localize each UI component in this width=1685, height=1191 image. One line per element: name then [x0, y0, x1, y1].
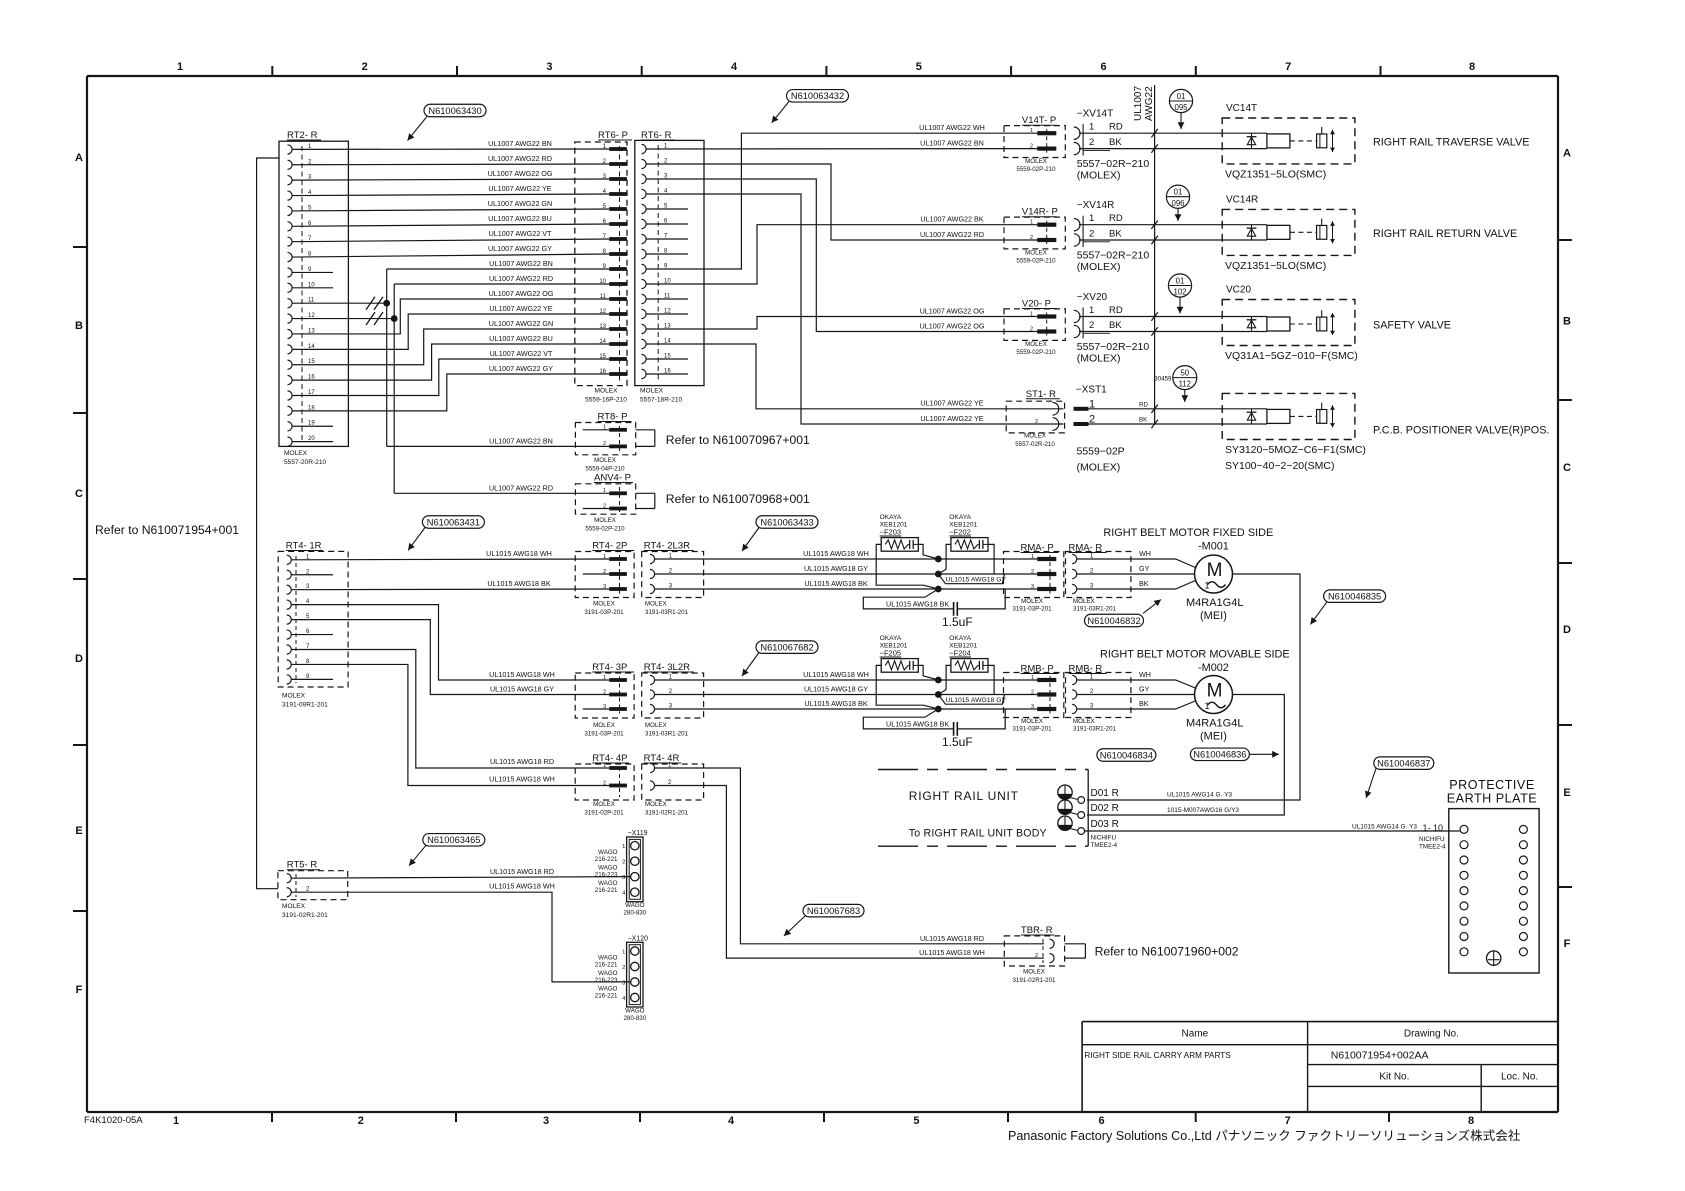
wire RT2-R.17 to RT6-P.15 (UL1007 AWG22 VT) — [292, 349, 609, 395]
dash-dot box RIGHT RAIL UNIT (open left) — [878, 770, 1088, 847]
svg-text:UL1007 AWG22 YE: UL1007 AWG22 YE — [920, 414, 983, 423]
svg-text:280-830: 280-830 — [623, 910, 646, 917]
svg-text:UL1015 AWG18 WH: UL1015 AWG18 WH — [803, 549, 869, 558]
connector V20- P (MOLEX 5559-02P-210) — [1004, 299, 1065, 357]
svg-text:VC14T: VC14T — [1226, 103, 1257, 114]
svg-text:D03 R: D03 R — [1091, 819, 1119, 830]
heading RIGHT BELT MOTOR MOVABLE SIDE -M002 — [1100, 649, 1290, 675]
svg-text:3191-03R1-201: 3191-03R1-201 — [645, 731, 689, 738]
connector V14R- P (MOLEX 5559-02P-210) — [1004, 207, 1065, 265]
solenoid valve P.C.B. POSITIONER VALVE(R)POS. — [1222, 393, 1366, 472]
svg-text:BK: BK — [1109, 137, 1122, 148]
svg-text:RIGHT RAIL TRAVERSE VALVE: RIGHT RAIL TRAVERSE VALVE — [1373, 136, 1529, 148]
svg-text:096: 096 — [1171, 199, 1184, 208]
wire RMB- R.1 to motor M002 (WH) — [1077, 670, 1197, 689]
filter F204 (OKAYA XEB1201) — [938, 635, 994, 695]
wire RT6-R.3 to V20-P.2 (UL1007 AWG22 OG) — [646, 179, 1037, 332]
svg-text:1: 1 — [1031, 554, 1034, 560]
svg-text:3: 3 — [1031, 704, 1034, 710]
svg-text:MOLEX: MOLEX — [1021, 598, 1043, 605]
svg-text:UL1007 AWG22 RD: UL1007 AWG22 RD — [489, 274, 553, 283]
wire RT2-R.3 to RT6-P.3 (UL1007 AWG22 OG) — [292, 169, 609, 180]
svg-text:MOLEX: MOLEX — [1025, 158, 1047, 165]
svg-text:216-223: 216-223 — [595, 977, 618, 984]
connector RT4-2L3R (MOLEX 3191-03R1-201) — [642, 541, 704, 617]
svg-text:2: 2 — [603, 689, 606, 695]
svg-text:UL1007 AWG22 YE: UL1007 AWG22 YE — [920, 399, 983, 408]
wire motor M002 to D02 R bus — [1087, 695, 1284, 816]
svg-text:UL1015 AWG18 GY: UL1015 AWG18 GY — [804, 564, 868, 573]
svg-text:BK: BK — [1109, 229, 1122, 240]
wire label D02 (1015-M007AWG16 G/Y3) — [1167, 807, 1239, 814]
svg-text:216-221: 216-221 — [595, 887, 618, 894]
svg-text:(MOLEX): (MOLEX) — [1077, 353, 1121, 365]
svg-text:UL1007 AWG22 GN: UL1007 AWG22 GN — [488, 199, 552, 208]
heading RIGHT BELT MOTOR FIXED SIDE -M001 — [1103, 527, 1273, 553]
svg-text:1: 1 — [603, 554, 606, 560]
wire stub RT2-R.19 — [292, 425, 333, 427]
svg-text:Refer to N610070968+001: Refer to N610070968+001 — [666, 492, 810, 506]
svg-text:3: 3 — [603, 584, 606, 590]
svg-text:WAGO: WAGO — [625, 1007, 645, 1014]
connector RMB- P (MOLEX 3191-03P-201) — [1004, 664, 1064, 733]
wire RT6-R.1 to V14T-P.2 (UL1007 AWG22 BN) — [646, 138, 1037, 149]
svg-text:2: 2 — [1035, 419, 1038, 425]
svg-text:(MOLEX): (MOLEX) — [1077, 462, 1121, 474]
wire RT2-R.2 to RT6-P.2 (UL1007 AWG22 RD) — [292, 154, 609, 165]
svg-text:RT2- R: RT2- R — [287, 130, 318, 141]
svg-text:5557−02R−210: 5557−02R−210 — [1077, 250, 1150, 262]
svg-text:3: 3 — [543, 1115, 549, 1127]
svg-text:Kit No.: Kit No. — [1379, 1072, 1409, 1083]
wire RT2-R.7 to RT6-P.7 (UL1007 AWG22 VT) — [292, 229, 609, 242]
connector RMB- R (MOLEX 3191-03R1-201) — [1066, 664, 1131, 733]
balloon N610063465 — [409, 834, 485, 866]
svg-text:01: 01 — [1177, 92, 1186, 101]
svg-text:Drawing No.: Drawing No. — [1404, 1029, 1459, 1040]
svg-text:UL1007 AWG22 WH: UL1007 AWG22 WH — [919, 123, 985, 132]
svg-text:MOLEX: MOLEX — [645, 601, 667, 608]
plug header XV20 (5557-02R-210 MOLEX) — [1074, 292, 1222, 365]
svg-text:3191-03P-201: 3191-03P-201 — [1012, 606, 1052, 613]
svg-text:−XV14R: −XV14R — [1077, 200, 1115, 211]
svg-text:UL1007 AWG22 RD: UL1007 AWG22 RD — [920, 230, 984, 239]
svg-text:MOLEX: MOLEX — [1024, 433, 1046, 440]
svg-text:5559-02P-210: 5559-02P-210 — [585, 526, 625, 533]
svg-text:(MOLEX): (MOLEX) — [1077, 261, 1121, 273]
balloon ref 50/112 (30459) — [1154, 366, 1197, 402]
connector RT4-3L2R (MOLEX 3191-03R1-201) — [642, 662, 704, 738]
svg-text:RIGHT SIDE RAIL CARRY ARM PART: RIGHT SIDE RAIL CARRY ARM PARTS — [1084, 1051, 1231, 1060]
svg-text:D01 R: D01 R — [1091, 788, 1119, 799]
svg-text:TMEE2-4: TMEE2-4 — [1419, 844, 1446, 851]
wire RT4-1R.7 to RT4-4P.1 (UL1015 AWG18 RD) — [291, 650, 609, 769]
junction dots M002 WH/GY/BK — [935, 677, 942, 713]
terminal strip -X119 (WAGO) — [595, 830, 648, 917]
valve name: SAFETY VALVE — [1373, 320, 1451, 332]
wire RT2-R.15 to RT6-P.13 (UL1007 AWG22 GN) — [292, 319, 609, 365]
svg-text:UL1007 AWG22 BN: UL1007 AWG22 BN — [920, 138, 984, 147]
svg-text:WAGO: WAGO — [598, 985, 618, 992]
svg-text:N610046836: N610046836 — [1193, 750, 1246, 760]
svg-text:VQ31A1−5GZ−010−F(SMC): VQ31A1−5GZ−010−F(SMC) — [1225, 350, 1358, 362]
svg-text:1.5uF: 1.5uF — [942, 615, 973, 629]
svg-text:E: E — [1563, 787, 1570, 799]
svg-text:MOLEX: MOLEX — [593, 801, 615, 808]
capacitor 1.5uF (M001) — [863, 589, 1005, 629]
title block — [1082, 1022, 1558, 1112]
svg-text:UL1007 AWG22 YE: UL1007 AWG22 YE — [488, 184, 551, 193]
svg-text:UL1015 AWG18 RD: UL1015 AWG18 RD — [490, 757, 554, 766]
plug header XV14R (5557-02R-210 MOLEX) — [1074, 200, 1222, 273]
connector RMA- P (MOLEX 3191-03P-201) — [1004, 543, 1064, 613]
svg-text:WAGO: WAGO — [625, 902, 645, 909]
svg-text:1: 1 — [1205, 581, 1210, 591]
svg-text:5559-04P-210: 5559-04P-210 — [585, 466, 625, 473]
svg-text:UL1007 AWG22 OG: UL1007 AWG22 OG — [489, 289, 554, 298]
valve name: RIGHT RAIL RETURN VALVE — [1373, 228, 1517, 240]
filter F202 (OKAYA XEB1201) — [938, 514, 994, 574]
svg-text:3191-03P-201: 3191-03P-201 — [584, 731, 624, 738]
svg-text:C: C — [1563, 462, 1571, 474]
svg-text:UL1007 AWG22 BU: UL1007 AWG22 BU — [488, 214, 552, 223]
svg-text:NICHIFU: NICHIFU — [1419, 836, 1445, 843]
svg-text:V14T- P: V14T- P — [1022, 115, 1056, 126]
earth terminal D03 R — [1058, 816, 1119, 834]
svg-text:UL1015 AWG18 RD: UL1015 AWG18 RD — [920, 934, 984, 943]
svg-text:1: 1 — [1089, 122, 1094, 133]
svg-text:P.C.B. POSITIONER VALVE(R)POS.: P.C.B. POSITIONER VALVE(R)POS. — [1373, 424, 1549, 436]
wire RMA- R.2 to motor M001 (GY) — [1077, 564, 1195, 574]
svg-text:2: 2 — [622, 965, 625, 971]
svg-text:PROTECTIVE: PROTECTIVE — [1449, 778, 1534, 792]
svg-text:Panasonic Factory Solutions Co: Panasonic Factory Solutions Co.,Ltd パナソニ… — [1008, 1128, 1521, 1143]
motor M001 (M4RA1G4L MEI) — [1186, 555, 1243, 622]
plug header -XST1 (5559-02P MOLEX) — [1074, 384, 1223, 473]
note: Refer to N610071954+001 — [95, 523, 239, 537]
svg-text:D: D — [75, 653, 83, 665]
svg-text:50: 50 — [1180, 368, 1189, 377]
svg-text:WAGO: WAGO — [598, 865, 618, 872]
svg-text:C: C — [75, 488, 83, 500]
svg-text:UL1007 AWG22 GY: UL1007 AWG22 GY — [488, 244, 552, 253]
wire RT2-R.18 to RT6-P.16 (UL1007 AWG22 GY) — [292, 364, 609, 411]
wire RT6-R.4 to ST1.2 (UL1007 AWG22 YE) — [646, 194, 1063, 424]
wire stub RT4-1R.6 — [291, 634, 333, 636]
svg-text:MOLEX: MOLEX — [594, 388, 618, 395]
svg-text:3: 3 — [622, 981, 625, 987]
svg-text:A: A — [75, 152, 83, 164]
company name Panasonic Factory Solutions — [1008, 1128, 1521, 1143]
svg-text:8: 8 — [1468, 1115, 1474, 1127]
svg-text:2: 2 — [1031, 569, 1034, 575]
svg-text:5557-02R-210: 5557-02R-210 — [1015, 441, 1055, 448]
wire RT5-R.2 to X120.3 (UL1015 AWG18 WH) — [291, 882, 630, 982]
svg-text:5557−02R−210: 5557−02R−210 — [1077, 341, 1150, 353]
wire RT4-2L3R.3 to RMA-P.3 (UL1015 AWG18 BK) — [655, 579, 1038, 589]
svg-text:30459: 30459 — [1154, 376, 1172, 383]
svg-text:7: 7 — [1285, 61, 1291, 73]
svg-text:UL1015 AWG18 BK: UL1015 AWG18 BK — [487, 579, 550, 588]
wire RT4-4R.1 to TBR-R.1 (UL1015 AWG18 RD) — [655, 768, 1045, 944]
svg-text:7: 7 — [1285, 1115, 1291, 1127]
svg-text:WH: WH — [1139, 670, 1151, 679]
svg-text:N610063430: N610063430 — [428, 106, 481, 116]
svg-text:UL1007 AWG22 BN: UL1007 AWG22 BN — [489, 259, 553, 268]
svg-text:3191-03P-201: 3191-03P-201 — [584, 609, 624, 616]
svg-text:TMEE2-4: TMEE2-4 — [1091, 842, 1118, 849]
svg-text:To RIGHT RAIL UNIT BODY: To RIGHT RAIL UNIT BODY — [909, 828, 1047, 840]
svg-text:UL1015 AWG18 WH: UL1015 AWG18 WH — [489, 882, 555, 891]
svg-text:2: 2 — [362, 61, 368, 73]
svg-text:1: 1 — [1031, 675, 1034, 681]
svg-text:−XST1: −XST1 — [1076, 384, 1107, 395]
wire stub RT2-R.10 — [292, 287, 333, 289]
svg-text:RD: RD — [1109, 305, 1123, 316]
svg-text:1: 1 — [173, 1115, 179, 1127]
svg-text:UL1007 AWG22 OG: UL1007 AWG22 OG — [488, 169, 553, 178]
svg-text:F4K1020-05A: F4K1020-05A — [84, 1115, 143, 1126]
wire RT4-1R.1 to RT4-2P.1 (UL1015 AWG18 WH) — [291, 549, 609, 560]
connector V14T- P (MOLEX 5559-02P-210) — [1004, 115, 1065, 173]
svg-text:ST1- R: ST1- R — [1026, 389, 1056, 400]
svg-text:8: 8 — [1469, 61, 1475, 73]
svg-text:F: F — [76, 984, 83, 996]
svg-text:1: 1 — [603, 763, 606, 769]
svg-text:−X119: −X119 — [628, 830, 648, 837]
svg-text:MOLEX: MOLEX — [640, 388, 664, 395]
balloon ref 01/102 — [1168, 274, 1191, 314]
balloon N610063431 — [408, 516, 484, 551]
svg-text:6: 6 — [1099, 1115, 1105, 1127]
svg-text:N610046834: N610046834 — [1100, 750, 1153, 760]
svg-text:UL1015 AWG18 GY: UL1015 AWG18 GY — [804, 684, 868, 693]
svg-text:1: 1 — [1030, 220, 1033, 226]
svg-text:EARTH PLATE: EARTH PLATE — [1447, 792, 1537, 806]
svg-text:1015-M007AWG16 G/Y3: 1015-M007AWG16 G/Y3 — [1167, 807, 1239, 814]
svg-text:Refer to N610071960+002: Refer to N610071960+002 — [1095, 945, 1239, 959]
wire RT2-R.13 to RT6-P.11 (UL1007 AWG22 OG) — [292, 289, 609, 334]
wire RMB- R.3 to motor M002 (BK) — [1077, 699, 1197, 709]
svg-text:MOLEX: MOLEX — [645, 722, 667, 729]
svg-text:WAGO: WAGO — [598, 970, 618, 977]
connector RT4-4R (MOLEX 3191-02R1-201) — [642, 753, 704, 817]
wire RMA- R.3 to motor M001 (BK) — [1077, 579, 1197, 589]
svg-text:5: 5 — [913, 1115, 919, 1127]
svg-text:V14R- P: V14R- P — [1022, 207, 1058, 218]
motor M002 (M4RA1G4L MEI) — [1186, 676, 1243, 743]
svg-text:2: 2 — [358, 1115, 364, 1127]
wire RT2-R.6 to RT6-P.6 (UL1007 AWG22 BU) — [292, 214, 609, 226]
svg-text:3191-03R1-201: 3191-03R1-201 — [645, 609, 689, 616]
svg-text:216-221: 216-221 — [595, 992, 618, 999]
svg-text:−XV20: −XV20 — [1077, 292, 1108, 303]
svg-text:UL1015 AWG18 BK: UL1015 AWG18 BK — [886, 600, 949, 609]
solenoid valve VC14R — [1222, 194, 1355, 272]
svg-text:1: 1 — [1030, 128, 1033, 134]
wire RT6-R.2 to V14R-P.2 (UL1007 AWG22 RD) — [646, 164, 1037, 240]
svg-text:1: 1 — [177, 61, 183, 73]
svg-text:WAGO: WAGO — [598, 880, 618, 887]
svg-text:3: 3 — [1031, 584, 1034, 590]
svg-text:5559−02P: 5559−02P — [1077, 446, 1125, 458]
svg-text:3191-02P-201: 3191-02P-201 — [584, 810, 624, 817]
filter F205 (OKAYA XEB1201) — [876, 635, 938, 709]
svg-text:N610046835: N610046835 — [1328, 591, 1381, 601]
svg-text:N610067683: N610067683 — [807, 906, 860, 916]
connector RT5-R (MOLEX 3191-02R1-201) — [278, 860, 348, 919]
svg-text:E: E — [75, 825, 82, 837]
svg-text:3191-03R1-201: 3191-03R1-201 — [1073, 606, 1117, 613]
svg-text:BK: BK — [1139, 417, 1148, 424]
wire stub RT4-1R.2 — [291, 574, 333, 576]
solenoid valve VC20 — [1222, 285, 1358, 363]
svg-text:RD: RD — [1139, 401, 1148, 408]
svg-text:1.5uF: 1.5uF — [942, 735, 973, 749]
svg-text:UL1007 AWG22 BN: UL1007 AWG22 BN — [489, 436, 553, 445]
svg-text:V20- P: V20- P — [1022, 299, 1051, 310]
svg-text:2: 2 — [1089, 137, 1094, 148]
svg-text:2: 2 — [622, 860, 625, 866]
terminal strip -X120 (WAGO) — [595, 935, 648, 1022]
svg-text:AWG22: AWG22 — [1144, 86, 1155, 121]
wire RMB- R.2 to motor M002 (GY) — [1077, 684, 1195, 694]
wire RT6-R.14 to ST1.1 (UL1007 AWG22 YE) — [646, 344, 1063, 409]
svg-text:RT4- 1R: RT4- 1R — [286, 541, 322, 552]
sheet code F4K1020-05A — [84, 1115, 143, 1126]
note: Refer to N610070968+001 — [666, 492, 810, 506]
balloon N610046836 — [1190, 748, 1279, 761]
svg-text:SAFETY VALVE: SAFETY VALVE — [1373, 320, 1451, 332]
svg-text:MOLEX: MOLEX — [594, 457, 616, 464]
wire RT2-R.4 to RT6-P.4 (UL1007 AWG22 YE) — [292, 184, 609, 196]
connector RT6-R (MOLEX 5557-18R-210) — [635, 130, 704, 404]
svg-text:MOLEX: MOLEX — [594, 517, 616, 524]
svg-text:UL1007 AWG22 VT: UL1007 AWG22 VT — [490, 349, 553, 358]
svg-text:2: 2 — [1089, 229, 1094, 240]
svg-text:ANV4- P: ANV4- P — [594, 473, 631, 484]
svg-text:01: 01 — [1174, 188, 1183, 197]
svg-text:4: 4 — [731, 61, 738, 73]
svg-text:N610063465: N610063465 — [427, 835, 480, 845]
svg-text:MOLEX: MOLEX — [593, 722, 615, 729]
svg-text:−XV14T: −XV14T — [1077, 109, 1113, 120]
svg-text:216-221: 216-221 — [595, 856, 618, 863]
svg-text:2: 2 — [1031, 689, 1034, 695]
svg-text:RT4- 2P: RT4- 2P — [592, 541, 627, 552]
svg-text:MOLEX: MOLEX — [284, 450, 308, 457]
earth terminal D02 R — [1058, 800, 1119, 818]
svg-text:UL1007 AWG22 YE: UL1007 AWG22 YE — [489, 304, 552, 313]
svg-text:2: 2 — [1030, 327, 1033, 333]
wire RT4-3L2R.2 to RMB-P.2 (UL1015 AWG18 GY) — [655, 684, 1038, 694]
svg-text:1: 1 — [622, 844, 625, 850]
svg-text:N610063431: N610063431 — [427, 517, 480, 527]
protective earth plate — [1447, 778, 1539, 973]
svg-text:095: 095 — [1174, 103, 1188, 112]
connector ANV4-P (MOLEX 5559-02P-210) — [575, 473, 654, 533]
balloon N610046837 — [1365, 757, 1434, 798]
svg-text:OKAYA: OKAYA — [880, 514, 902, 521]
wire RT4-4R.2 to TBR-R.2 (UL1015 AWG18 WH) — [655, 786, 1045, 959]
svg-text:RIGHT BELT MOTOR FIXED SIDE: RIGHT BELT MOTOR FIXED SIDE — [1103, 527, 1273, 539]
svg-text:UL1015 AWG18 GY: UL1015 AWG18 GY — [490, 684, 554, 693]
drawing frame — [73, 61, 1572, 1127]
svg-text:MOLEX: MOLEX — [1023, 969, 1045, 976]
balloon ref 01/095 — [1169, 89, 1192, 129]
connector RT4-3P (MOLEX 3191-03P-201) — [575, 662, 634, 738]
svg-text:N610046832: N610046832 — [1087, 616, 1140, 626]
svg-text:UL1015 AWG18 GY: UL1015 AWG18 GY — [946, 697, 1007, 704]
connector RT2-R (MOLEX 5557-20R-210) — [279, 130, 348, 466]
svg-text:UL1015 AWG18 RD: UL1015 AWG18 RD — [490, 867, 554, 876]
svg-text:UL1007 AWG22 OG: UL1007 AWG22 OG — [920, 306, 985, 315]
svg-text:UL1015 AWG18 WH: UL1015 AWG18 WH — [919, 948, 985, 957]
wire RT4-1R.4 to RT4-3P.1 (UL1015 AWG18 WH) — [291, 605, 609, 680]
svg-text:GY: GY — [1139, 564, 1150, 573]
connector RMA- R (MOLEX 3191-03R1-201) — [1066, 543, 1131, 613]
svg-text:N610063432: N610063432 — [791, 91, 844, 101]
svg-text:MOLEX: MOLEX — [282, 693, 306, 700]
connector RT4-2P (MOLEX 3191-03P-201) — [575, 541, 634, 617]
connector ST1-R (MOLEX 5557-02R-210) — [1006, 389, 1064, 448]
connector RT6-P (MOLEX 5559-16P-210) — [575, 130, 632, 404]
svg-text:Refer to N610071954+001: Refer to N610071954+001 — [95, 523, 239, 537]
svg-text:RT4- 3P: RT4- 3P — [592, 662, 627, 673]
svg-text:WAGO: WAGO — [598, 954, 618, 961]
svg-text:BK: BK — [1139, 579, 1149, 588]
balloon N610067682 — [742, 641, 818, 676]
svg-text:MOLEX: MOLEX — [1073, 598, 1095, 605]
svg-text:RT4- 4R: RT4- 4R — [644, 753, 680, 764]
svg-text:TBR- R: TBR- R — [1021, 925, 1053, 936]
svg-text:NICHIFU: NICHIFU — [1091, 835, 1117, 842]
wire RT2-R.14 to RT6-P.12 (UL1007 AWG22 YE) — [292, 304, 609, 349]
wire motor M001 to D01 R bus — [1087, 574, 1300, 800]
wire stub RT2-R.20 — [292, 441, 333, 443]
svg-text:UL1007 AWG22 OG: UL1007 AWG22 OG — [920, 321, 985, 330]
svg-text:UL1015 AWG18 GY: UL1015 AWG18 GY — [946, 577, 1007, 584]
svg-text:4: 4 — [728, 1115, 735, 1127]
terminal label NICHIFU TMEE2-4 (right) — [1419, 836, 1446, 851]
svg-text:N610046837: N610046837 — [1377, 758, 1430, 768]
svg-text:VQZ1351−5LO(SMC): VQZ1351−5LO(SMC) — [1225, 168, 1326, 180]
svg-text:A: A — [1563, 148, 1571, 160]
svg-text:3191-03R1-201: 3191-03R1-201 — [1073, 726, 1117, 733]
svg-text:B: B — [75, 320, 83, 332]
wire RT4-1R.8 to RT4-4P.2 (UL1015 AWG18 WH) — [291, 664, 609, 785]
svg-text:UL1007 AWG22 VT: UL1007 AWG22 VT — [489, 229, 552, 238]
svg-text:M: M — [1207, 681, 1223, 702]
balloon N610067683 — [784, 904, 864, 936]
note: Refer to N610070967+001 — [666, 433, 810, 447]
filter F203 (OKAYA XEB1201) — [876, 514, 938, 589]
svg-text:MOLEX: MOLEX — [1025, 250, 1047, 257]
wire D03 R to protective earth plate (UL1015 AWG14 G.Y3) — [1085, 823, 1460, 833]
earth terminal D01 R — [1058, 785, 1119, 803]
wire RT4-2L3R.2 to RMA-P.2 (UL1015 AWG18 GY) — [655, 564, 1038, 574]
svg-text:216-223: 216-223 — [595, 872, 618, 879]
svg-text:5557-18R-210: 5557-18R-210 — [640, 397, 682, 404]
valve name: RIGHT RAIL TRAVERSE VALVE — [1373, 136, 1529, 148]
svg-text:VQZ1351−5LO(SMC): VQZ1351−5LO(SMC) — [1225, 260, 1326, 272]
svg-text:5559-02P-210: 5559-02P-210 — [1016, 258, 1056, 265]
svg-text:3191-02R1-201: 3191-02R1-201 — [645, 810, 689, 817]
wire flag UL1015 AWG18 GY (M002) — [938, 695, 1006, 705]
svg-text:UL1015 AWG18 WH: UL1015 AWG18 WH — [489, 775, 555, 784]
wire RT4-1R.3 to RT4-2P.3 (UL1015 AWG18 BK) — [291, 579, 609, 590]
svg-text:RT4- 3L2R: RT4- 3L2R — [644, 662, 690, 673]
